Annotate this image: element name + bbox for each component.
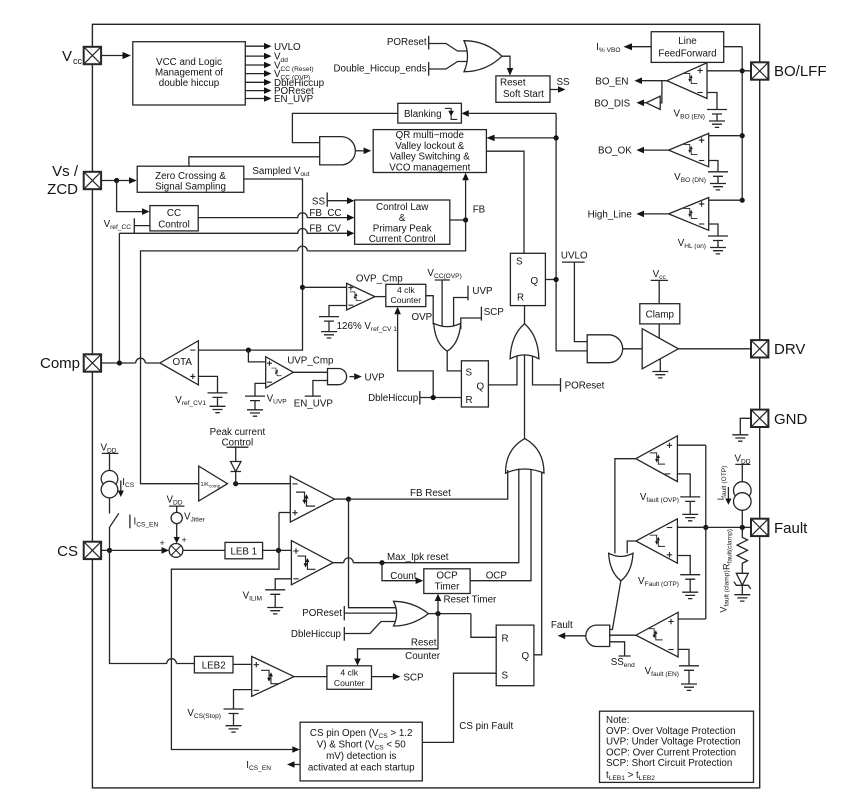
battery V_BO(EN) bbox=[707, 93, 717, 110]
svg-text:Valley lockout &: Valley lockout & bbox=[395, 141, 464, 152]
svg-text:V) & Short (VCS < 50: V) & Short (VCS < 50 bbox=[317, 740, 407, 752]
wire FB_CV vertical to Comp node bbox=[118, 233, 120, 363]
svg-text:Vcc: Vcc bbox=[653, 269, 667, 281]
wire sampled node to OVP plus bbox=[303, 286, 347, 288]
svg-text:BO_OK: BO_OK bbox=[598, 146, 632, 157]
svg-text:OVP: OVP bbox=[412, 312, 433, 323]
wire AND to driver bbox=[623, 348, 643, 350]
driver U6 (output buffer triangle) bbox=[642, 329, 678, 369]
svg-text:Q: Q bbox=[531, 276, 539, 287]
pin Comp bbox=[84, 354, 101, 371]
svg-text:Max_Ipk reset: Max_Ipk reset bbox=[387, 552, 449, 563]
svg-text:4 clk: 4 clk bbox=[397, 285, 415, 295]
svg-text:SCP: SCP bbox=[484, 307, 505, 318]
wire Blanking left, down to AND gate input bbox=[292, 113, 397, 142]
svg-text:Sampled Vout: Sampled Vout bbox=[252, 166, 309, 178]
wire 1/Kcomp node to FB comparator minus bbox=[236, 483, 291, 485]
wire SCP output bbox=[372, 676, 393, 678]
svg-text:Timer: Timer bbox=[435, 582, 460, 593]
battery V_BO(DN) bbox=[709, 161, 718, 172]
wire QR right output to latch S bbox=[486, 151, 524, 253]
svg-text:UVP: UVP bbox=[472, 286, 493, 297]
svg-text:ICS_EN: ICS_EN bbox=[134, 517, 159, 529]
wire counter reset (from DbleHiccup) bbox=[398, 314, 434, 397]
svg-text:Zero Crossing &: Zero Crossing & bbox=[155, 171, 226, 182]
battery Vref_CV1 bbox=[198, 376, 217, 393]
svg-text:R: R bbox=[466, 395, 473, 406]
wire latch Q to upper OR bbox=[488, 357, 517, 385]
wire Reset Counter bbox=[358, 614, 439, 659]
node FB bbox=[450, 219, 466, 221]
svg-text:ZCD: ZCD bbox=[47, 181, 78, 198]
svg-text:mV) detection is: mV) detection is bbox=[326, 751, 396, 762]
wire Q vertical bus (Blanking/QR/drive) bbox=[556, 113, 587, 351]
svg-text:VUVP: VUVP bbox=[267, 394, 288, 406]
svg-text:SCP: Short Circuit Protection: SCP: Short Circuit Protection bbox=[606, 758, 732, 769]
wire to fault latch R bbox=[471, 614, 496, 638]
wire OR out / Reset Timer node bbox=[429, 613, 471, 615]
svg-text:Double_Hiccup_ends: Double_Hiccup_ends bbox=[333, 64, 426, 75]
svg-text:SS: SS bbox=[557, 77, 571, 88]
comparator V_CS(stop) bbox=[233, 663, 252, 665]
svg-text:SCP: SCP bbox=[403, 673, 424, 684]
wire AND output to QR block bbox=[355, 150, 363, 152]
svg-text:DbleHiccup: DbleHiccup bbox=[291, 629, 342, 640]
svg-text:VHL (on): VHL (on) bbox=[678, 238, 706, 250]
OR gate U10 (big reset OR, points up) bbox=[506, 439, 545, 474]
svg-text:UVP_Cmp: UVP_Cmp bbox=[287, 356, 334, 367]
AND gate U15 (Fault out, points left) bbox=[586, 625, 610, 646]
battery V_ILIM bbox=[275, 579, 291, 590]
block Zero Crossing and Signal Sampling bbox=[137, 166, 244, 192]
OTA U11 bbox=[160, 341, 199, 385]
svg-text:Soft Start: Soft Start bbox=[503, 89, 544, 100]
svg-text:4 clk: 4 clk bbox=[340, 667, 358, 677]
wire Vcc pin to block bbox=[101, 55, 122, 57]
wire OCP to big OR bbox=[470, 469, 531, 581]
svg-text:FB Reset: FB Reset bbox=[410, 488, 451, 499]
svg-text:S: S bbox=[466, 368, 473, 379]
svg-text:CS pin Open (VCS > 1.2: CS pin Open (VCS > 1.2 bbox=[310, 728, 413, 740]
pin GND bbox=[751, 410, 768, 427]
wire OR output to Reset Soft Start bbox=[502, 56, 510, 68]
junction dot Vs node bbox=[114, 178, 119, 183]
svg-text:Reset: Reset bbox=[500, 78, 526, 89]
svg-text:Rfault(clamp): Rfault(clamp) bbox=[722, 529, 734, 570]
svg-text:&: & bbox=[399, 213, 406, 224]
wire BO_EN output bbox=[642, 80, 667, 82]
svg-text:CS pin Fault: CS pin Fault bbox=[459, 721, 513, 732]
battery V_UVP bbox=[255, 383, 266, 396]
svg-text:VCC and Logic: VCC and Logic bbox=[156, 57, 222, 68]
switch I_CS_EN bbox=[109, 498, 119, 550]
svg-text:ICS_EN: ICS_EN bbox=[246, 760, 271, 772]
comparator BO_EN (points left) bbox=[667, 63, 707, 99]
wire I_CS_EN output bbox=[295, 764, 301, 766]
note box bbox=[600, 711, 754, 782]
latch U8 (OVP latch S/Q/R) bbox=[461, 361, 488, 407]
svg-text:OTA: OTA bbox=[173, 357, 193, 368]
svg-text:CS: CS bbox=[57, 543, 78, 560]
svg-text:GND: GND bbox=[774, 411, 808, 428]
VCC and Logic Management block bbox=[133, 42, 246, 105]
svg-text:EN_UVP: EN_UVP bbox=[294, 399, 334, 410]
wire UVLO to drive AND bbox=[574, 262, 587, 342]
wire FB return (down, left, down to 1/Kcomp) bbox=[141, 220, 466, 484]
block Line FeedForward bbox=[651, 32, 724, 63]
svg-text:Reset: Reset bbox=[411, 637, 437, 648]
svg-text:Primary Peak: Primary Peak bbox=[373, 224, 432, 235]
svg-text:Fault: Fault bbox=[551, 620, 573, 631]
svg-text:POReset: POReset bbox=[302, 608, 342, 619]
svg-text:VILIM: VILIM bbox=[243, 591, 262, 603]
wire LFF to BO bus bbox=[724, 46, 743, 48]
svg-text:S: S bbox=[516, 257, 523, 268]
comparator V_Fault(OTP) (points left) bbox=[636, 519, 678, 563]
wire OTP comp minus input bbox=[677, 526, 705, 528]
svg-text:Vfault (clamp): Vfault (clamp) bbox=[719, 570, 731, 612]
block CS pin open/short detection bbox=[300, 722, 422, 781]
svg-text:BO_EN: BO_EN bbox=[595, 77, 628, 88]
ground (GND pin) bbox=[740, 418, 751, 435]
svg-text:Counter: Counter bbox=[405, 651, 441, 662]
wire OCP output (hop) to Max_Ipk node bbox=[333, 469, 519, 563]
svg-text:Management of: Management of bbox=[155, 68, 223, 79]
wire comparator to AND bbox=[610, 634, 636, 636]
svg-text:1/Kcomp: 1/Kcomp bbox=[201, 482, 221, 489]
svg-text:126% Vref_CV 1: 126% Vref_CV 1 bbox=[337, 321, 398, 333]
OR gate U13 (timer reset OR) bbox=[394, 601, 429, 626]
block LEB1 bbox=[183, 549, 225, 551]
wire CS pin to multiplier bbox=[101, 549, 161, 551]
svg-text:OCP: OCP bbox=[486, 570, 508, 581]
junction dot CS node bbox=[107, 548, 112, 553]
node SS_end bbox=[610, 642, 631, 656]
svg-text:SSend: SSend bbox=[611, 657, 635, 669]
comparator V_fault(EN) (points left) bbox=[636, 612, 678, 657]
multiplier (jitter adder) bbox=[169, 544, 183, 558]
block CC Control bbox=[150, 206, 198, 231]
svg-text:UVP: UVP bbox=[365, 372, 386, 383]
svg-text:FB: FB bbox=[473, 205, 486, 216]
diode V_fault(clamp) bbox=[736, 573, 748, 585]
wire V_fault(EN) plus input up bbox=[678, 618, 706, 620]
svg-text:R: R bbox=[517, 293, 524, 304]
svg-text:Clamp: Clamp bbox=[646, 309, 675, 320]
wire latch Q to vertical bus bbox=[545, 279, 556, 281]
wire OTP comp output to OR bbox=[627, 541, 636, 553]
svg-text:Vfault (EN): Vfault (EN) bbox=[645, 666, 679, 678]
vertical fault threshold bus bbox=[705, 445, 707, 619]
svg-text:OVP: Over Voltage Protection: OVP: Over Voltage Protection bbox=[606, 726, 736, 737]
wire driver to DRV pin bbox=[678, 348, 751, 350]
comparator FB reset bbox=[290, 476, 334, 522]
svg-text:High_Line: High_Line bbox=[588, 209, 633, 220]
battery V_HL(on) bbox=[709, 224, 718, 236]
comparator BO_OK (points left) bbox=[669, 133, 709, 166]
svg-text:Control Law: Control Law bbox=[376, 202, 429, 213]
svg-text:cc: cc bbox=[73, 56, 83, 66]
svg-text:VCO management: VCO management bbox=[389, 162, 470, 173]
svg-text:DRV: DRV bbox=[774, 341, 805, 358]
svg-text:VBO (DN): VBO (DN) bbox=[674, 172, 706, 184]
resistor R_fault(clamp) bbox=[737, 527, 747, 573]
latch U14 (fault latch R/Q/S) bbox=[496, 625, 534, 686]
battery V_Fault(OTP) bbox=[677, 556, 690, 575]
svg-text:UVLO: UVLO bbox=[561, 251, 588, 262]
svg-text:Valley Switching &: Valley Switching & bbox=[390, 151, 470, 162]
svg-text:VJitter: VJitter bbox=[184, 512, 206, 524]
block QR multi-mode bbox=[373, 130, 486, 173]
svg-text:+: + bbox=[182, 535, 187, 545]
svg-text:Signal Sampling: Signal Sampling bbox=[155, 182, 226, 193]
svg-text:EN_UVP: EN_UVP bbox=[274, 94, 314, 105]
block 4 clk Counter (SCP) bbox=[294, 676, 327, 678]
svg-text:V: V bbox=[62, 48, 72, 65]
wire Vs node down to CC Control bbox=[117, 181, 142, 212]
wire FB up into QR bottom bbox=[465, 180, 467, 220]
wire slant from protection OR to AND bbox=[610, 581, 621, 630]
comparator OCP (Max_Ipk) bbox=[291, 541, 333, 585]
latch U4 (S/Q/R with UVLO) bbox=[510, 253, 545, 305]
block 4 clk Counter (OVP) bbox=[375, 296, 386, 298]
svg-text:S: S bbox=[502, 671, 509, 682]
svg-text:VDD: VDD bbox=[167, 495, 183, 507]
wire Clamp to driver bbox=[658, 324, 660, 339]
svg-text:Q: Q bbox=[522, 651, 530, 662]
wire Fault pin bbox=[677, 526, 751, 528]
svg-text:OCP: OCP bbox=[436, 571, 458, 582]
svg-text:Count: Count bbox=[390, 571, 416, 582]
wire OTA output to Comp pin (hop over FB line) bbox=[101, 358, 160, 363]
pin Vs/ZCD bbox=[84, 172, 101, 189]
wire CS pin fault into S bbox=[422, 673, 496, 742]
svg-text:ICS: ICS bbox=[122, 477, 134, 489]
ground (driver) bbox=[659, 359, 661, 372]
block LEB2 bbox=[110, 550, 195, 663]
buffer BO_DIS bbox=[660, 81, 662, 103]
svg-text:POReset: POReset bbox=[565, 381, 605, 392]
wire Vs/ZCD pin to ZC block bbox=[101, 180, 129, 182]
svg-text:FB_CC: FB_CC bbox=[309, 208, 341, 219]
wire ZC box top to AND lower input bbox=[189, 157, 320, 166]
svg-text:Current Control: Current Control bbox=[369, 234, 436, 245]
svg-text:Vref_CC: Vref_CC bbox=[104, 219, 132, 231]
junction dot sampled/OVP bbox=[300, 285, 305, 290]
OR gate U7 (fault OR, points down) bbox=[434, 323, 461, 351]
pin CS bbox=[84, 542, 101, 559]
block OCP Timer bbox=[424, 569, 470, 594]
pin DRV bbox=[751, 340, 768, 357]
wire FB Reset to big OR bbox=[349, 470, 508, 499]
outer border frame bbox=[92, 24, 759, 788]
svg-text:Line: Line bbox=[678, 36, 697, 47]
svg-text:Reset Timer: Reset Timer bbox=[444, 595, 498, 606]
svg-text:Blanking: Blanking bbox=[404, 109, 442, 120]
wire FB_CC with hop bbox=[198, 213, 347, 218]
svg-text:BO_DIS: BO_DIS bbox=[594, 99, 630, 110]
wire I%VBO output bbox=[632, 46, 651, 48]
svg-text:QR multi−mode: QR multi−mode bbox=[396, 130, 465, 141]
junction dot OTA minus node bbox=[246, 348, 251, 353]
svg-text:POReset: POReset bbox=[387, 37, 427, 48]
vertical BO bus bbox=[741, 47, 743, 201]
wire FB reset down to reset-timer OR bbox=[349, 499, 398, 608]
wire POReset to OR bbox=[429, 44, 467, 52]
svg-text:Control: Control bbox=[158, 220, 190, 231]
wire LEB1 node down to CS detection box bbox=[171, 550, 292, 749]
node FB Reset bbox=[335, 498, 349, 500]
OR gate U16 (fault OR, points down) bbox=[609, 553, 633, 581]
svg-text:Counter: Counter bbox=[391, 295, 422, 305]
pin BO/LFF bbox=[751, 62, 768, 79]
wire Double_Hiccup_ends to OR bbox=[429, 62, 467, 70]
svg-text:activated at each startup: activated at each startup bbox=[308, 763, 415, 774]
svg-text:BO/LFF: BO/LFF bbox=[774, 63, 827, 80]
svg-text:DbleHiccup: DbleHiccup bbox=[368, 393, 419, 404]
AND gate U5 (drive) bbox=[587, 335, 622, 363]
svg-text:R: R bbox=[502, 634, 509, 645]
wire counter to OR (OVP signal) bbox=[426, 296, 433, 325]
wire into Blanking right (from Q vertical) bbox=[469, 112, 556, 114]
wire Sampled Vout: ZC right, down to OTA minus bbox=[198, 179, 302, 350]
svg-text:VFault (OTP): VFault (OTP) bbox=[638, 576, 679, 588]
wire upper OR out to latch R bbox=[524, 306, 526, 324]
wire LEB1 to OCP comparator bbox=[263, 549, 292, 551]
wire OTA minus node to UVP plus bbox=[248, 350, 265, 362]
pin Vcc bbox=[84, 47, 101, 64]
AND gate U3 (QR enable) bbox=[320, 137, 356, 165]
wire fault latch Q up to big OR bbox=[534, 472, 542, 655]
svg-text:Comp: Comp bbox=[40, 355, 80, 372]
svg-text:VCC(OVP): VCC(OVP) bbox=[427, 268, 461, 280]
svg-text:OVP_Cmp: OVP_Cmp bbox=[356, 274, 403, 285]
wire Fault output arrow bbox=[565, 635, 586, 637]
svg-text:Note:: Note: bbox=[606, 715, 629, 726]
block Blanking bbox=[398, 103, 462, 123]
waveform glyph inside Blanking bbox=[445, 108, 457, 119]
svg-text:Q: Q bbox=[477, 382, 485, 393]
wire Count to OCP Timer bbox=[382, 563, 416, 581]
pin Fault bbox=[751, 519, 768, 536]
diode (peak current control) bbox=[231, 462, 242, 472]
svg-text:Counter: Counter bbox=[334, 678, 365, 688]
wire BO/LFF pin bbox=[707, 70, 751, 72]
wire big OR out to upper OR bbox=[524, 355, 526, 439]
wire OVP comp output to OR bbox=[615, 459, 636, 554]
VCC block output arrows bbox=[245, 45, 264, 47]
wire Q vertical to QR right input bbox=[495, 137, 556, 139]
svg-text:UVP: Under Voltage Protection: UVP: Under Voltage Protection bbox=[606, 737, 741, 748]
wire FB comp plus from LEB1 node bbox=[279, 512, 290, 514]
svg-text:Vs /: Vs / bbox=[52, 163, 79, 180]
svg-text:FeedForward: FeedForward bbox=[658, 49, 716, 60]
svg-text:Ifault (OTP): Ifault (OTP) bbox=[716, 466, 728, 501]
svg-text:LEB 1: LEB 1 bbox=[230, 546, 257, 557]
battery V_CS(Stop) bbox=[234, 690, 252, 709]
svg-text:LEB2: LEB2 bbox=[202, 660, 226, 671]
wire LEB1 node up to FB comparator plus bbox=[278, 513, 280, 551]
battery 126% Vref_CV1 bbox=[329, 306, 347, 317]
amp 1/Kcomp bbox=[199, 466, 228, 501]
OR gate U9 (upper reset OR, points up) bbox=[510, 324, 539, 359]
svg-text:Vfault (OVP): Vfault (OVP) bbox=[640, 492, 679, 504]
block Control Law bbox=[355, 200, 450, 244]
svg-text:FB_CV: FB_CV bbox=[309, 224, 341, 235]
wire OR out to latch S bbox=[447, 351, 461, 371]
battery V_fault(EN) bbox=[678, 649, 689, 665]
comparator High_Line (points left) bbox=[669, 198, 709, 231]
wire FB_CV with hop bbox=[119, 229, 347, 234]
svg-text:CC: CC bbox=[167, 208, 181, 219]
svg-text:I% VBO: I% VBO bbox=[596, 42, 620, 54]
wire OVP comp plus input bbox=[677, 444, 705, 446]
battery V_fault(OVP) bbox=[677, 474, 690, 497]
comparator V_fault(OVP) (points left) bbox=[636, 436, 678, 482]
wire UVP output bbox=[349, 376, 354, 378]
OR gate U2 (POReset / Double_Hiccup_ends) bbox=[464, 41, 502, 72]
svg-text:Peak current: Peak current bbox=[210, 427, 266, 438]
svg-text:VCS(Stop): VCS(Stop) bbox=[187, 708, 221, 720]
svg-text:Fault: Fault bbox=[774, 520, 808, 537]
svg-text:+: + bbox=[160, 538, 165, 548]
block Reset Soft Start bbox=[496, 76, 550, 102]
svg-text:double hiccup: double hiccup bbox=[159, 78, 220, 89]
svg-text:Vref_CV1: Vref_CV1 bbox=[175, 395, 206, 407]
svg-text:OCP: Over Current Protection: OCP: Over Current Protection bbox=[606, 747, 736, 758]
AND gate U12 (UVP gate) bbox=[293, 371, 327, 373]
svg-text:SS: SS bbox=[312, 197, 326, 208]
block Clamp bbox=[640, 304, 680, 324]
svg-text:VBO (EN): VBO (EN) bbox=[674, 109, 705, 121]
